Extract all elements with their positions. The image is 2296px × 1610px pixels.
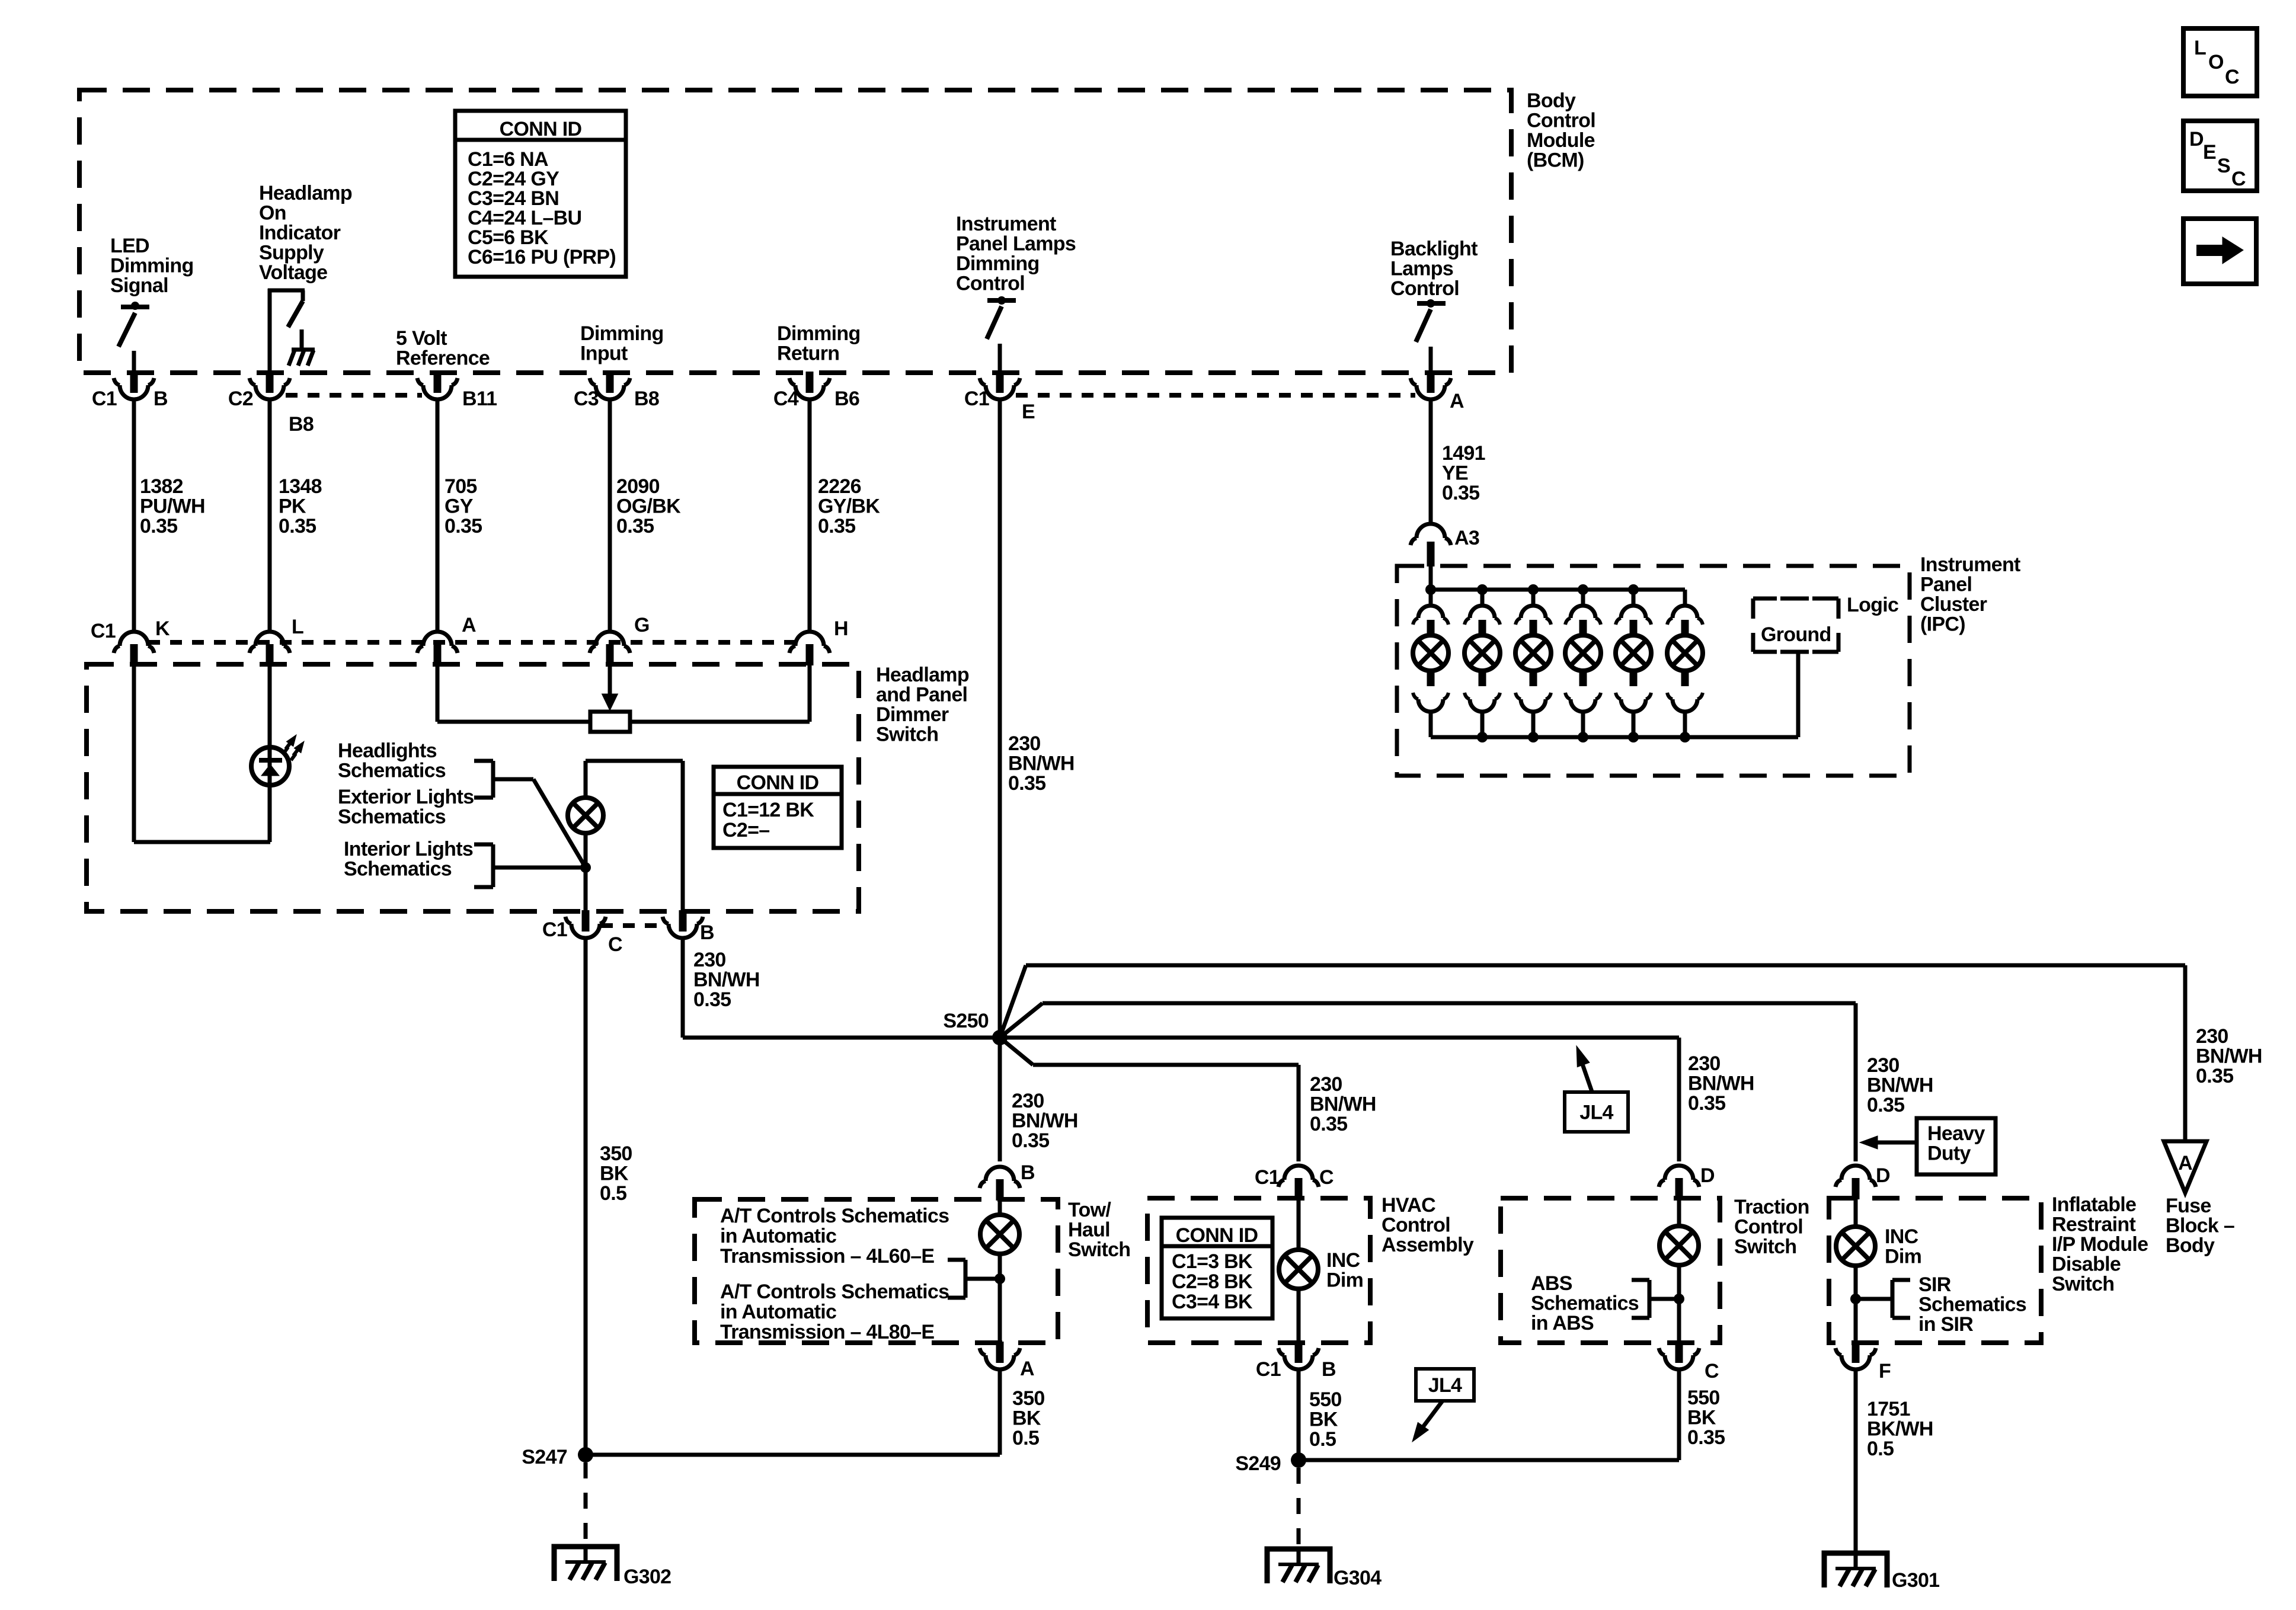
CONN ID table (BCM) xyxy=(455,111,626,277)
svg-text:PK: PK xyxy=(279,495,306,518)
connector pin B11 (BCM) xyxy=(434,372,442,393)
label JL4 (callout box upper) xyxy=(1565,1092,1628,1132)
switch Instrument Panel Lamps Dimming Control (BCM internal) xyxy=(987,298,1016,303)
wire B to S249 xyxy=(1297,1369,1301,1460)
svg-text:B8: B8 xyxy=(289,413,314,436)
svg-text:Cluster: Cluster xyxy=(1920,593,1987,616)
LED light arrows xyxy=(283,739,293,754)
svg-text:5 Volt: 5 Volt xyxy=(396,327,447,350)
wire lamp to F (SIR) xyxy=(1854,1266,1858,1343)
IPC lamp unit 5 (connector pins + lamp) xyxy=(1628,584,1639,595)
svg-text:Switch: Switch xyxy=(1734,1235,1796,1258)
IPC lamp unit 1 (connector pins + lamp) xyxy=(1425,584,1436,595)
svg-text:Control: Control xyxy=(1734,1216,1803,1238)
wire B to lamp (Tow/Haul) xyxy=(998,1199,1002,1215)
svg-text:G: G xyxy=(634,614,650,636)
svg-text:Traction: Traction xyxy=(1734,1196,1809,1218)
svg-text:Dim: Dim xyxy=(1326,1269,1363,1292)
svg-text:Panel: Panel xyxy=(1920,574,1972,596)
svg-text:BN/WH: BN/WH xyxy=(2196,1045,2262,1068)
svg-text:Fuse: Fuse xyxy=(2166,1195,2211,1217)
svg-text:F: F xyxy=(1879,1360,1891,1382)
connector pin A (BCM) xyxy=(1427,372,1435,393)
wire S247 to G302 (dashed) xyxy=(584,1462,588,1545)
svg-text:S250: S250 xyxy=(943,1010,989,1032)
svg-text:BN/WH: BN/WH xyxy=(693,969,760,991)
label Heavy Duty (callout box) xyxy=(1917,1118,1996,1174)
svg-text:Instrument: Instrument xyxy=(956,213,1056,235)
svg-text:Schematics: Schematics xyxy=(338,806,446,828)
svg-text:Body: Body xyxy=(1527,89,1576,112)
svg-text:1348: 1348 xyxy=(279,475,322,498)
svg-text:Transmission – 4L80–E: Transmission – 4L80–E xyxy=(720,1321,934,1343)
svg-text:230: 230 xyxy=(1008,732,1041,755)
connector pin D (SIR disable switch) xyxy=(1852,1178,1860,1199)
svg-text:Return: Return xyxy=(777,343,839,365)
ground G302 xyxy=(554,1547,617,1581)
svg-text:E: E xyxy=(2203,141,2216,164)
wire S249 bus xyxy=(1299,1458,1679,1462)
arrow nav box (next page) xyxy=(2183,219,2256,284)
node S247 xyxy=(578,1447,593,1462)
svg-text:D: D xyxy=(1700,1164,1715,1187)
svg-text:BN/WH: BN/WH xyxy=(1310,1093,1376,1116)
svg-text:in Automatic: in Automatic xyxy=(720,1225,836,1247)
svg-text:0.35: 0.35 xyxy=(279,515,316,537)
svg-text:H: H xyxy=(834,617,848,640)
wire 1491 YE from A to A3 xyxy=(1429,399,1433,526)
connector pin C (dimmer C1) xyxy=(582,910,590,932)
connector pin G xyxy=(606,644,614,665)
svg-text:Heavy: Heavy xyxy=(1927,1122,1985,1145)
svg-text:in SIR: in SIR xyxy=(1918,1313,1973,1336)
wire F to G301 xyxy=(1854,1369,1858,1555)
wire S247 bus xyxy=(586,1453,1000,1457)
svg-text:HVAC: HVAC xyxy=(1382,1194,1435,1217)
ground G304 xyxy=(1267,1549,1330,1583)
svg-text:Signal: Signal xyxy=(110,274,168,297)
svg-text:A3: A3 xyxy=(1454,527,1479,549)
svg-text:E: E xyxy=(1022,401,1035,423)
svg-text:0.35: 0.35 xyxy=(445,515,482,537)
switch LED Dimming Signal (BCM internal) xyxy=(121,305,149,309)
connector group dotted line C2-B11 xyxy=(286,393,422,398)
svg-text:Indicator: Indicator xyxy=(259,222,341,244)
svg-text:BK: BK xyxy=(600,1163,629,1185)
svg-text:0.35: 0.35 xyxy=(818,515,855,537)
arrow JL4 to wire xyxy=(1581,1061,1593,1093)
svg-text:230: 230 xyxy=(2196,1025,2228,1048)
svg-text:Interior Lights: Interior Lights xyxy=(344,838,473,860)
svg-text:2090: 2090 xyxy=(616,475,660,498)
svg-text:C2=8 BK: C2=8 BK xyxy=(1172,1270,1253,1293)
wire G wiper with arrow xyxy=(608,664,612,696)
wire 2090 OG/BK from B8 to G xyxy=(608,399,612,632)
connector pin K (dimmer C1) xyxy=(130,644,138,665)
svg-text:Logic: Logic xyxy=(1847,594,1898,616)
svg-text:0.5: 0.5 xyxy=(1012,1427,1039,1449)
svg-text:A: A xyxy=(2178,1152,2192,1174)
svg-text:C: C xyxy=(1705,1360,1719,1382)
DESC nav box xyxy=(2183,121,2257,191)
LOC nav box xyxy=(2183,28,2257,96)
svg-text:C1: C1 xyxy=(964,388,989,410)
svg-text:BK/WH: BK/WH xyxy=(1867,1418,1933,1441)
svg-text:Schematics: Schematics xyxy=(1918,1294,2026,1316)
svg-text:1751: 1751 xyxy=(1867,1398,1910,1420)
svg-text:Exterior Lights: Exterior Lights xyxy=(338,786,474,808)
svg-text:Input: Input xyxy=(580,343,628,365)
connector pin B (Tow/Haul switch) xyxy=(996,1179,1004,1201)
svg-text:ABS: ABS xyxy=(1531,1272,1572,1295)
svg-text:Module: Module xyxy=(1527,129,1595,152)
svg-text:0.35: 0.35 xyxy=(1687,1426,1725,1449)
svg-text:Headlamp: Headlamp xyxy=(876,664,969,686)
svg-text:S247: S247 xyxy=(522,1446,567,1468)
IPC lamp supply bus xyxy=(1431,588,1685,592)
svg-text:Assembly: Assembly xyxy=(1382,1234,1474,1256)
svg-text:D: D xyxy=(1876,1164,1890,1187)
wire diagonal to headlights/exterior bracket xyxy=(533,779,586,868)
wire 230 BN/WH from E down to S250 xyxy=(998,399,1002,1038)
svg-text:C3=4 BK: C3=4 BK xyxy=(1172,1291,1253,1313)
Headlamp and Panel Dimmer Switch dashed box xyxy=(87,664,859,911)
Inflatable Restraint I/P Module Disable Switch dashed box xyxy=(1829,1198,2041,1343)
svg-text:Schematics: Schematics xyxy=(338,760,446,782)
wire lamp bottom to node xyxy=(584,833,588,911)
connector pin B (dimmer) xyxy=(679,910,687,932)
node S249 xyxy=(1291,1452,1306,1468)
switch Headlamp On Indicator (BCM internal, to ground) xyxy=(268,289,272,374)
wire A internal down to potentiometer xyxy=(436,664,440,722)
svg-text:Reference: Reference xyxy=(396,347,490,370)
switch Backlight Lamps Control (BCM internal) xyxy=(1417,301,1446,306)
wire D to lamp (SIR) xyxy=(1854,1198,1858,1227)
wire A to S247 bus xyxy=(998,1369,1002,1455)
lamp (SIR INC Dim) xyxy=(1836,1227,1875,1266)
svg-text:0.35: 0.35 xyxy=(1867,1094,1904,1116)
svg-text:CONN ID: CONN ID xyxy=(737,772,819,794)
connector pin A3 (IPC) xyxy=(1427,542,1435,566)
svg-text:A/T Controls Schematics: A/T Controls Schematics xyxy=(720,1281,949,1303)
svg-text:Body: Body xyxy=(2166,1234,2215,1257)
svg-text:C: C xyxy=(608,933,622,956)
svg-text:Voltage: Voltage xyxy=(259,261,327,284)
svg-text:B: B xyxy=(1322,1358,1336,1381)
svg-text:in Automatic: in Automatic xyxy=(720,1301,836,1323)
svg-text:C2=–: C2=– xyxy=(722,819,769,841)
svg-text:Schematics: Schematics xyxy=(344,858,452,881)
connector pin D (Traction switch) xyxy=(1675,1178,1683,1199)
wire lamp top to B xyxy=(584,761,588,798)
ground (BCM internal mini ground) xyxy=(300,329,304,349)
svg-text:BK: BK xyxy=(1012,1407,1041,1430)
bracket headlights/exterior schematics xyxy=(491,761,495,798)
svg-text:G304: G304 xyxy=(1334,1567,1382,1589)
LED D1 (photocell) in dimmer switch xyxy=(251,747,289,785)
node (dimmer lamp junction) xyxy=(580,862,591,873)
wire K internal down xyxy=(132,664,136,842)
wire 705 GY from B11 to A xyxy=(436,399,440,632)
svg-text:Lamps: Lamps xyxy=(1390,258,1453,280)
arrow JL4 to S249 bus xyxy=(1421,1401,1443,1429)
svg-text:Haul: Haul xyxy=(1068,1219,1110,1241)
svg-text:Panel Lamps: Panel Lamps xyxy=(956,233,1076,255)
svg-text:0.5: 0.5 xyxy=(1309,1428,1336,1451)
svg-text:(BCM): (BCM) xyxy=(1527,149,1584,172)
svg-text:B11: B11 xyxy=(462,388,497,410)
wire lamp to C (Traction) xyxy=(1677,1265,1681,1343)
svg-text:BN/WH: BN/WH xyxy=(1867,1074,1933,1097)
svg-text:CONN ID: CONN ID xyxy=(500,118,582,140)
svg-text:OG/BK: OG/BK xyxy=(616,495,681,518)
svg-text:Headlamp: Headlamp xyxy=(259,182,352,204)
svg-text:Control: Control xyxy=(1382,1214,1450,1237)
svg-text:C1: C1 xyxy=(542,918,567,941)
lamp (Tow/Haul switch) xyxy=(980,1215,1019,1254)
connector pin B (HVAC C1 bottom) xyxy=(1295,1342,1303,1363)
wire 230 BN/WH from dimmer B to S250 xyxy=(681,937,685,1038)
wire lamp to A (Tow/Haul) xyxy=(998,1254,1002,1343)
svg-text:LED: LED xyxy=(110,235,149,257)
svg-text:230: 230 xyxy=(693,949,726,971)
svg-text:Control: Control xyxy=(1390,277,1459,300)
svg-text:Inflatable: Inflatable xyxy=(2052,1193,2136,1216)
lamp (Traction switch) xyxy=(1659,1226,1699,1265)
svg-text:0.35: 0.35 xyxy=(1310,1113,1347,1135)
svg-text:Disable: Disable xyxy=(2052,1253,2121,1276)
svg-text:S249: S249 xyxy=(1235,1452,1281,1475)
Tow/Haul Switch dashed box xyxy=(695,1199,1058,1343)
svg-text:Instrument: Instrument xyxy=(1920,553,2020,576)
svg-text:0.35: 0.35 xyxy=(1008,772,1045,795)
bracket A/T controls xyxy=(965,1277,1000,1281)
svg-text:Headlights: Headlights xyxy=(338,740,437,762)
wire S250 down to Tow/Haul B xyxy=(998,1038,1002,1161)
arrow Heavy Duty to SIR D wire xyxy=(1876,1141,1917,1145)
svg-text:On: On xyxy=(259,202,286,225)
wire L to LED top xyxy=(268,664,272,842)
svg-text:L: L xyxy=(292,616,303,638)
svg-text:PU/WH: PU/WH xyxy=(140,495,205,518)
svg-text:0.35: 0.35 xyxy=(693,988,731,1011)
IPC lamp unit 4 (connector pins + lamp) xyxy=(1578,584,1588,595)
svg-text:705: 705 xyxy=(445,475,477,498)
svg-text:Control: Control xyxy=(1527,110,1595,132)
svg-text:INC: INC xyxy=(1885,1225,1918,1248)
svg-text:Restraint: Restraint xyxy=(2052,1214,2135,1236)
node (Tow/Haul bracket junction) xyxy=(994,1273,1005,1284)
svg-text:C2: C2 xyxy=(228,388,253,410)
svg-text:C1: C1 xyxy=(1256,1358,1281,1381)
svg-text:BK: BK xyxy=(1687,1407,1716,1429)
svg-text:INC: INC xyxy=(1326,1249,1360,1272)
svg-text:Supply: Supply xyxy=(259,242,324,264)
svg-text:0.35: 0.35 xyxy=(140,515,177,537)
wire C to lamp (HVAC) xyxy=(1297,1198,1301,1250)
svg-text:550: 550 xyxy=(1309,1388,1342,1411)
svg-text:B8: B8 xyxy=(634,388,659,410)
svg-text:BN/WH: BN/WH xyxy=(1012,1110,1078,1132)
svg-text:C6=16 PU (PRP): C6=16 PU (PRP) xyxy=(468,246,616,268)
wire lamp to B (HVAC) xyxy=(1297,1289,1301,1343)
label JL4 (callout box lower) xyxy=(1416,1369,1474,1401)
svg-text:BN/WH: BN/WH xyxy=(1688,1073,1754,1095)
svg-text:SIR: SIR xyxy=(1918,1273,1951,1296)
wire H internal down xyxy=(808,664,812,722)
svg-text:C4: C4 xyxy=(773,388,799,410)
wire potentiometer left segment xyxy=(437,720,590,724)
IPC lamp unit 2 (connector pins + lamp) xyxy=(1477,584,1488,595)
svg-text:B: B xyxy=(700,921,714,944)
svg-text:C1=12 BK: C1=12 BK xyxy=(722,799,814,821)
svg-text:0.5: 0.5 xyxy=(600,1182,626,1205)
svg-text:L: L xyxy=(2194,37,2206,59)
bracket SIR schematics xyxy=(1856,1297,1892,1301)
lamp (dimmer switch illumination) xyxy=(568,798,603,833)
svg-text:230: 230 xyxy=(1310,1073,1342,1096)
connector pin B8 (BCM C3) xyxy=(606,372,614,393)
svg-text:1382: 1382 xyxy=(140,475,183,498)
svg-text:G301: G301 xyxy=(1892,1569,1939,1592)
Instrument Panel Cluster (IPC) dashed box xyxy=(1397,566,1910,776)
connector pin H xyxy=(806,644,814,665)
connector pin F (SIR bottom) xyxy=(1852,1342,1860,1363)
wire internal horizontal K to LED xyxy=(134,840,270,844)
svg-text:C1: C1 xyxy=(1255,1166,1280,1189)
svg-text:C1=3 BK: C1=3 BK xyxy=(1172,1250,1253,1273)
svg-text:Switch: Switch xyxy=(876,724,938,746)
IPC lamp unit 3 (connector pins + lamp) xyxy=(1528,584,1539,595)
svg-text:S: S xyxy=(2217,155,2230,177)
svg-text:C3: C3 xyxy=(574,388,599,410)
wire A3 to IPC bus xyxy=(1429,566,1433,590)
svg-text:C: C xyxy=(2231,168,2246,190)
svg-text:A: A xyxy=(1020,1358,1034,1380)
svg-text:0.35: 0.35 xyxy=(1688,1092,1725,1115)
wire to interior lights bracket xyxy=(493,866,586,870)
connector pin A xyxy=(434,644,442,665)
svg-text:C1: C1 xyxy=(92,388,117,410)
svg-text:in ABS: in ABS xyxy=(1531,1312,1594,1334)
svg-text:350: 350 xyxy=(600,1142,632,1165)
svg-text:0.35: 0.35 xyxy=(2196,1065,2233,1087)
svg-text:2226: 2226 xyxy=(818,475,861,498)
connector pin B8 (BCM C2) xyxy=(266,372,274,393)
CONN ID table (HVAC) xyxy=(1162,1218,1272,1318)
wire S250 to SIR D (second fan line) xyxy=(1000,1003,1043,1038)
svg-text:O: O xyxy=(2208,51,2224,73)
svg-text:550: 550 xyxy=(1687,1387,1720,1409)
svg-text:K: K xyxy=(155,617,170,640)
svg-text:GY/BK: GY/BK xyxy=(818,495,880,518)
connector group dotted line C1(E)-A xyxy=(1016,393,1415,398)
wire potentiometer right segment xyxy=(630,720,810,724)
svg-text:I/P Module: I/P Module xyxy=(2052,1233,2148,1256)
wire 1382 PU/WH from B to K xyxy=(132,399,136,632)
Traction Control Switch dashed box xyxy=(1501,1198,1720,1343)
svg-text:Dimming: Dimming xyxy=(956,252,1040,275)
svg-text:BK: BK xyxy=(1309,1409,1338,1431)
connector group dotted line K-H (dimmer C1) xyxy=(148,640,797,645)
resistor R (dimmer potentiometer) xyxy=(590,712,630,732)
svg-text:B6: B6 xyxy=(834,388,859,410)
svg-text:Block –: Block – xyxy=(2166,1215,2234,1237)
svg-text:(IPC): (IPC) xyxy=(1920,613,1965,636)
svg-text:JL4: JL4 xyxy=(1428,1374,1462,1397)
node (SIR bracket junction) xyxy=(1850,1294,1861,1304)
svg-text:C: C xyxy=(2225,66,2239,88)
svg-text:230: 230 xyxy=(1012,1090,1044,1112)
svg-text:230: 230 xyxy=(1688,1052,1721,1075)
wire S249 to G304 (dashed) xyxy=(1297,1468,1301,1548)
IPC lamp unit 6 (connector pins + lamp) xyxy=(1683,590,1687,606)
wire D to lamp (Traction) xyxy=(1677,1198,1681,1226)
wire S250 to Traction D (third fan line) xyxy=(1000,1036,1679,1040)
svg-text:0.35: 0.35 xyxy=(1442,482,1479,504)
svg-text:D: D xyxy=(2189,128,2204,151)
Body Control Module (BCM) dashed box xyxy=(79,90,1511,373)
connector pin B6 (BCM C4) xyxy=(806,372,814,393)
svg-text:Dimmer: Dimmer xyxy=(876,703,949,726)
svg-text:A/T Controls Schematics: A/T Controls Schematics xyxy=(720,1205,949,1227)
svg-text:YE: YE xyxy=(1442,462,1468,485)
connector pin E (BCM C1) xyxy=(996,372,1004,393)
wire 350 BK from dimmer C down to S247 xyxy=(584,937,588,1455)
bracket interior lights schematics xyxy=(491,844,495,887)
wire IPC return bus to Ground box xyxy=(1796,652,1801,737)
wire C to S249 bus xyxy=(1677,1369,1681,1460)
svg-text:0.5: 0.5 xyxy=(1867,1438,1894,1460)
svg-text:Control: Control xyxy=(956,273,1025,295)
svg-text:Backlight: Backlight xyxy=(1390,238,1478,260)
ground G301 xyxy=(1824,1553,1887,1587)
svg-text:A: A xyxy=(462,614,476,636)
node (ABS bracket junction) xyxy=(1674,1294,1684,1304)
fuse block triangle A (off-page connector) xyxy=(2164,1141,2207,1193)
svg-text:Ground: Ground xyxy=(1761,623,1831,646)
svg-text:A: A xyxy=(1450,390,1464,412)
svg-text:Switch: Switch xyxy=(2052,1273,2114,1295)
HVAC Control Assembly dashed box xyxy=(1147,1198,1370,1343)
node S250 xyxy=(992,1030,1008,1045)
bracket ABS schematics xyxy=(1649,1297,1679,1301)
svg-text:BN/WH: BN/WH xyxy=(1008,753,1075,775)
wire S250 to HVAC C (fourth fan line) xyxy=(1000,1038,1033,1065)
svg-text:Dimming: Dimming xyxy=(580,322,664,345)
Ground box (IPC logic ground) xyxy=(1753,597,1777,601)
svg-text:Schematics: Schematics xyxy=(1531,1292,1639,1315)
connector group dotted line C-B (dimmer) xyxy=(601,923,667,928)
svg-text:GY: GY xyxy=(445,495,474,518)
svg-text:0.35: 0.35 xyxy=(1012,1129,1049,1152)
svg-text:JL4: JL4 xyxy=(1579,1102,1613,1124)
svg-text:Dimming: Dimming xyxy=(110,255,194,277)
svg-text:Dimming: Dimming xyxy=(777,322,861,345)
connector pin A (Tow/Haul bottom) xyxy=(996,1342,1004,1363)
svg-text:0.35: 0.35 xyxy=(616,515,654,537)
wire S250 to Fuse Block (top fan line) xyxy=(1000,965,1026,1038)
svg-text:B: B xyxy=(1021,1161,1035,1184)
connector pin C (Traction bottom) xyxy=(1675,1342,1683,1363)
svg-text:230: 230 xyxy=(1867,1054,1900,1077)
svg-text:C1: C1 xyxy=(91,620,116,642)
svg-text:350: 350 xyxy=(1012,1387,1045,1410)
svg-text:and Panel: and Panel xyxy=(876,684,967,706)
svg-text:C: C xyxy=(1319,1166,1334,1189)
svg-text:1491: 1491 xyxy=(1442,442,1485,465)
CONN ID table (dimmer switch) xyxy=(714,767,842,848)
